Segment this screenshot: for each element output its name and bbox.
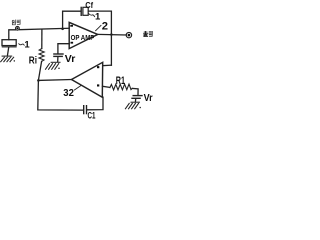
- ground: [46, 62, 61, 69]
- svg-text:OP AMP: OP AMP: [71, 35, 95, 42]
- capacitor (Vr right): [133, 95, 142, 97]
- wire (op-amp lower input to Vr cap): [58, 44, 69, 54]
- svg-text:Vr: Vr: [144, 92, 153, 104]
- svg-text:C1: C1: [88, 110, 96, 120]
- label 출력: [144, 31, 153, 36]
- wire (triangle2 top input stub): [103, 64, 112, 67]
- capacitor 1 (input box component): [2, 40, 16, 46]
- label 입력: [12, 20, 20, 25]
- svg-text:1: 1: [24, 40, 30, 51]
- junction (feedback / inverting input): [61, 28, 64, 31]
- leader + label 1 (box annotation): [19, 44, 24, 45]
- wire (junction down to bottom rail): [38, 80, 83, 110]
- wire (triangle2 output to junction): [38, 79, 71, 82]
- op-amp 3 (left-pointing buffer): [72, 62, 103, 97]
- ground: [125, 102, 141, 109]
- input terminal: [16, 26, 20, 30]
- wire (C1 to triangle2 lower corner): [87, 97, 103, 110]
- svg-text:Cf: Cf: [85, 0, 93, 10]
- capacitor C1: [83, 106, 85, 114]
- svg-text:32: 32: [63, 87, 74, 99]
- wire (op-amp output): [98, 33, 127, 36]
- wire (terminal left-down to box): [9, 30, 16, 40]
- svg-text:Ri: Ri: [29, 55, 37, 67]
- svg-text:Vr: Vr: [65, 53, 76, 65]
- leader + label 1 (Cf annotation): [89, 14, 95, 17]
- wire (output node down to triangle2): [110, 35, 112, 66]
- wire (Cf to output node): [89, 11, 112, 34]
- capacitor (Vr left): [54, 53, 63, 55]
- junction (output node): [110, 33, 113, 36]
- output terminal: [126, 32, 131, 37]
- resistor Ri: [41, 29, 43, 48]
- svg-text:2: 2: [102, 20, 108, 32]
- capacitor Cf: [80, 7, 82, 15]
- ground: [1, 56, 15, 62]
- op-amp U1: [69, 22, 98, 48]
- wire (input line to op-amp): [20, 28, 70, 29]
- svg-text:R1: R1: [116, 75, 125, 87]
- resistor R1: [110, 84, 132, 90]
- wire (R1 to right cap): [132, 88, 138, 95]
- wire (triangle2 bottom input stub to R1): [103, 86, 110, 87]
- wire (feedback up and right to Cf): [63, 11, 81, 29]
- svg-text:1: 1: [95, 12, 101, 23]
- junction (Ri / triangle2 output / C1 rail): [37, 79, 40, 82]
